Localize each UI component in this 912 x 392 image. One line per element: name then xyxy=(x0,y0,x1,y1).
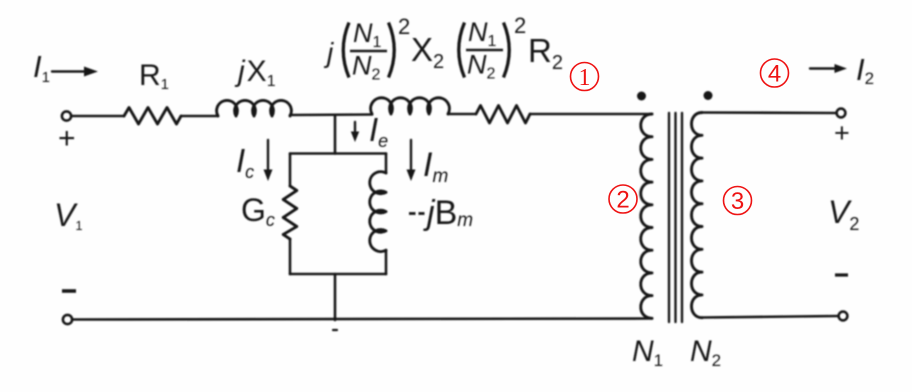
core line 3 xyxy=(681,113,683,322)
resistor R2 reflected xyxy=(476,106,530,124)
shunt box top wire xyxy=(290,152,386,155)
terminal top-left xyxy=(62,111,71,120)
label formula R2 : bar xyxy=(466,49,503,51)
shunt box right upper wire xyxy=(385,154,388,174)
node 4 red circle xyxy=(761,59,789,87)
transformer secondary winding xyxy=(692,113,703,318)
svg-text:3: 3 xyxy=(731,188,744,215)
svg-text:2: 2 xyxy=(616,187,629,214)
terminal bottom-right xyxy=(839,312,848,321)
arrow Ie xyxy=(354,122,356,134)
tick below bottom wire xyxy=(333,329,337,331)
shunt box left lower wire xyxy=(289,239,292,274)
inductor X2 reflected xyxy=(371,98,450,114)
svg-text:+: + xyxy=(58,122,76,155)
svg-text:+: + xyxy=(834,118,850,148)
node 2 red circle xyxy=(609,185,637,213)
wire R1 to jX1 xyxy=(181,115,218,118)
top-right wire xyxy=(702,111,837,114)
svg-text:2: 2 xyxy=(514,13,526,38)
label formula jX2 : open paren xyxy=(343,23,349,78)
shunt box right lower wire xyxy=(385,250,388,274)
shunt box bottom wire xyxy=(290,273,386,276)
label formula R2 : close paren xyxy=(504,23,510,78)
node 3 red circle xyxy=(724,187,752,215)
arrow Ic xyxy=(267,140,269,172)
bottom-left wire xyxy=(73,319,653,320)
shunt bottom vertical wire xyxy=(334,274,337,320)
svg-text:1: 1 xyxy=(579,65,591,91)
inductor Bm xyxy=(370,172,386,252)
arrow Im xyxy=(410,140,412,172)
node junction vertical wire xyxy=(334,115,337,154)
terminal bottom-left xyxy=(63,315,72,324)
resistor Gc xyxy=(283,186,297,239)
arrow I2 xyxy=(810,67,836,69)
minus left xyxy=(62,289,76,293)
wire X2 to R2 xyxy=(448,113,476,116)
node 1 red circle xyxy=(571,63,599,91)
label formula jX2 : bar xyxy=(350,50,387,52)
wire terminal to R1 xyxy=(72,115,125,118)
label formula R2 : open paren xyxy=(459,23,465,78)
inductor jX1 xyxy=(217,100,292,116)
polarity dot secondary xyxy=(704,91,713,100)
arrow I1 xyxy=(52,70,85,72)
core line 1 xyxy=(668,113,670,322)
minus right xyxy=(835,273,848,276)
terminal top-right xyxy=(837,109,846,118)
label formula jX2 : close paren xyxy=(389,23,395,78)
shunt box left upper wire xyxy=(289,154,292,187)
core line 2 xyxy=(674,113,676,322)
bottom-right wire xyxy=(702,316,839,318)
wire jX1 to X2prime through node xyxy=(290,113,372,116)
wire R2 to transformer primary xyxy=(530,113,652,116)
resistor R1 xyxy=(124,108,181,125)
label minus jBm xyxy=(409,212,416,215)
svg-text:2: 2 xyxy=(398,14,410,39)
svg-text:4: 4 xyxy=(768,61,781,88)
transformer primary winding xyxy=(641,114,652,318)
polarity dot primary xyxy=(637,92,646,101)
